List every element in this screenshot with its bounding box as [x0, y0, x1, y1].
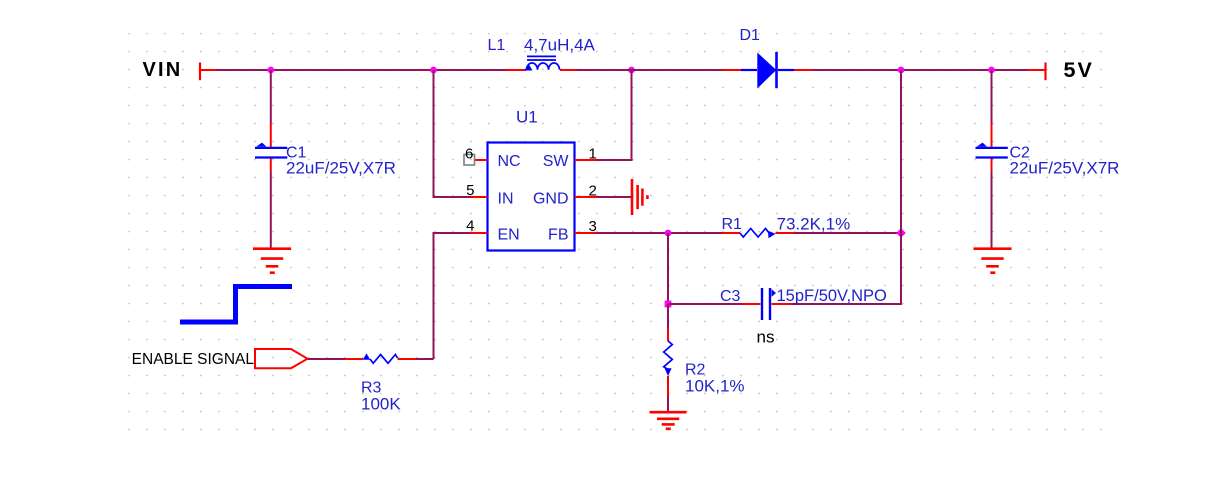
- wire VIN to L1: [216, 69, 506, 71]
- capacitor C2: [976, 143, 1008, 158]
- wire D1 to 5V port: [794, 69, 1046, 71]
- svg-text:3: 3: [589, 218, 597, 235]
- svg-text:22uF/25V,X7R: 22uF/25V,X7R: [286, 159, 396, 178]
- svg-text:22uF/25V,X7R: 22uF/25V,X7R: [1010, 159, 1120, 178]
- label R2: [685, 362, 706, 379]
- svg-text:R1: R1: [722, 216, 743, 233]
- pin name GND: [533, 191, 569, 208]
- pin 3 stub: [575, 232, 597, 234]
- node junction C2: [988, 67, 995, 74]
- pin number 6: [465, 146, 473, 163]
- pin 5 stub: [470, 196, 488, 198]
- label C2: [1010, 145, 1031, 162]
- resistor R2: [664, 341, 673, 396]
- svg-text:10K,1%: 10K,1%: [685, 377, 745, 396]
- pin number 1: [589, 146, 597, 163]
- pin number 4: [466, 218, 474, 235]
- svg-text:EN: EN: [498, 226, 520, 243]
- wire junction to C3: [668, 303, 742, 305]
- resistor R3: [363, 353, 416, 363]
- svg-text:5: 5: [466, 182, 474, 199]
- no-connect marker pin 6: [464, 155, 475, 166]
- node junction C1: [267, 67, 274, 74]
- wire IN branch: [434, 70, 488, 197]
- port 5V: [1044, 63, 1046, 81]
- node junction IN branch: [430, 67, 437, 74]
- wire C1 branch: [270, 70, 272, 147]
- pin name SW: [543, 153, 570, 170]
- svg-text:ns: ns: [757, 328, 775, 347]
- node junction FB: [665, 230, 672, 237]
- port ENABLE pentagon: [255, 349, 308, 368]
- wire junction to R2: [667, 304, 669, 341]
- svg-text:L1: L1: [488, 37, 506, 54]
- wire right vertical: [792, 70, 901, 304]
- value 73.2K,1%: [777, 215, 851, 234]
- svg-text:GND: GND: [533, 191, 569, 208]
- value 15pF/50V,NPO: [777, 287, 888, 305]
- node junction R1 right: [896, 228, 906, 238]
- node junction R1 top: [898, 67, 905, 74]
- node junction C3/R2: [665, 301, 672, 308]
- step waveform symbol: [180, 287, 292, 323]
- ground C1: [253, 249, 291, 273]
- svg-text:VIN: VIN: [143, 59, 183, 81]
- wire R1 to right vertical: [794, 232, 901, 234]
- label C3: [720, 288, 741, 305]
- label U1: [516, 108, 538, 127]
- svg-text:2: 2: [589, 183, 597, 200]
- svg-text:73.2K,1%: 73.2K,1%: [777, 215, 851, 234]
- svg-text:ENABLE SIGNAL: ENABLE SIGNAL: [132, 351, 255, 368]
- pin name FB: [548, 226, 568, 243]
- label L1: [488, 37, 506, 54]
- svg-text:5V: 5V: [1064, 58, 1094, 82]
- net label VIN: [143, 59, 183, 81]
- wire FB to R1: [597, 232, 723, 234]
- svg-text:4,7uH,4A: 4,7uH,4A: [524, 36, 596, 55]
- net label ENABLE SIGNAL: [132, 351, 255, 368]
- wire R2 to ground: [667, 396, 669, 411]
- node junction SW branch: [628, 67, 635, 74]
- pin number 2: [589, 183, 597, 200]
- wire C2 branch: [991, 70, 993, 147]
- net label 5V: [1064, 58, 1094, 82]
- grid dot background: [128, 33, 1103, 432]
- value 22uF/25V,X7R C2: [1010, 159, 1120, 178]
- wire C2 to ground: [991, 159, 993, 248]
- svg-text:U1: U1: [516, 108, 538, 127]
- svg-text:NC: NC: [498, 153, 521, 170]
- capacitor C1: [255, 143, 287, 158]
- label R1: [722, 216, 743, 233]
- wire pentagon to R3: [308, 358, 364, 360]
- value 100K: [361, 395, 401, 414]
- value 10K,1%: [685, 377, 745, 396]
- ground R2: [650, 412, 687, 429]
- svg-text:C3: C3: [720, 288, 741, 305]
- svg-text:15pF/50V,NPO: 15pF/50V,NPO: [777, 287, 888, 305]
- svg-text:4: 4: [466, 218, 474, 235]
- svg-text:100K: 100K: [361, 395, 401, 414]
- value 22uF/25V,X7R: [286, 159, 396, 178]
- label R3: [361, 380, 382, 397]
- pin 6 stub: [475, 159, 488, 161]
- svg-text:IN: IN: [498, 191, 514, 208]
- pin number 5: [466, 182, 474, 199]
- wire FB junction down: [667, 233, 669, 304]
- ground C2: [974, 249, 1012, 273]
- svg-text:FB: FB: [548, 226, 568, 243]
- capacitor C3: [742, 288, 792, 320]
- wire SW to main: [597, 70, 632, 160]
- op-amp U1 body: [488, 143, 575, 251]
- wire L1 to D1: [577, 69, 741, 71]
- pin name NC: [498, 153, 521, 170]
- label C1: [286, 145, 307, 162]
- label D1: [740, 27, 761, 44]
- wire C1 to ground: [270, 159, 272, 248]
- wire pin2 to earth: [597, 196, 632, 198]
- pin name IN: [498, 191, 514, 208]
- inductor L1: [506, 56, 577, 70]
- port VIN: [200, 63, 217, 81]
- pin name EN: [498, 226, 520, 243]
- resistor R1: [722, 229, 794, 239]
- svg-text:6: 6: [465, 146, 473, 163]
- label ns: [757, 328, 775, 347]
- svg-text:D1: D1: [740, 27, 761, 44]
- pin number 3: [589, 218, 597, 235]
- ground earth pin 2: [632, 179, 647, 215]
- svg-text:1: 1: [589, 146, 597, 163]
- svg-text:SW: SW: [543, 153, 570, 170]
- pin 1 stub: [575, 159, 597, 161]
- pin 2 stub: [575, 196, 597, 198]
- value 4,7uH,4A: [524, 36, 596, 55]
- diode D1: [741, 52, 794, 89]
- wire R3 to EN: [416, 233, 470, 359]
- pin 4 stub: [470, 232, 488, 234]
